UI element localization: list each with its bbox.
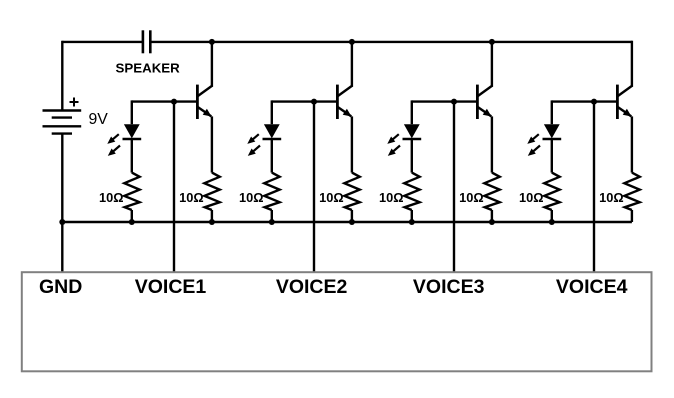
junction R5-ground: [409, 219, 415, 225]
resistor R1 10ohm (LED): [124, 173, 139, 210]
junction R1-ground: [129, 219, 135, 225]
wire resistor R8 to ground: [631, 210, 633, 222]
svg-text:10Ω: 10Ω: [459, 190, 484, 205]
svg-text:10Ω: 10Ω: [239, 190, 264, 205]
wire LED cathode lead voice4: [551, 139, 553, 173]
wire resistor R6 to ground: [491, 210, 493, 222]
LED D2: [263, 124, 282, 139]
wire resistor R5 to ground: [411, 210, 413, 222]
svg-text:GND: GND: [39, 276, 82, 298]
LED D2 emission arrows: [247, 134, 260, 156]
junction R7-ground: [549, 219, 555, 225]
wire VOICE2 tap down to module: [313, 102, 315, 273]
LED D4 emission arrows: [527, 134, 540, 156]
battery B1 9V: [43, 111, 82, 134]
LED D1: [123, 124, 142, 139]
wire LED anode lead voice1: [131, 100, 133, 124]
wire resistor R1 to ground: [131, 210, 133, 222]
resistor R8 10ohm (emitter): [624, 173, 639, 210]
sound module box: [22, 272, 652, 371]
junction collector Q2-top rail: [349, 39, 355, 45]
battery + polarity mark: [70, 98, 79, 107]
wire emitter Q2 to resistor: [351, 116, 353, 172]
wire LED cathode lead voice1: [131, 139, 133, 173]
node VOICE3 tap junction: [451, 99, 457, 105]
junction R6-ground: [489, 219, 495, 225]
wire top supply rail left segment: [62, 41, 143, 43]
svg-text:10Ω: 10Ω: [599, 190, 624, 205]
wire LED anode lead voice3: [411, 100, 413, 124]
transistor Q4: [617, 85, 632, 119]
junction battery-ground: [59, 219, 65, 225]
svg-text:SPEAKER: SPEAKER: [116, 61, 181, 76]
wire LED anode lead voice4: [551, 100, 553, 124]
junction R3-ground: [269, 219, 275, 225]
transistor Q3: [477, 85, 492, 119]
wire collector Q3 to top rail: [491, 41, 493, 87]
node VOICE1 tap junction: [171, 99, 177, 105]
wire battery positive lead: [61, 41, 63, 111]
svg-text:10Ω: 10Ω: [319, 190, 344, 205]
wire VOICE3 tap down to module: [453, 102, 455, 273]
wire LED cathode lead voice2: [271, 139, 273, 173]
LED D3: [403, 124, 422, 139]
wire collector Q2 to top rail: [351, 41, 353, 87]
LED D3 emission arrows: [387, 134, 400, 156]
transistor Q2: [337, 85, 352, 119]
svg-text:10Ω: 10Ω: [99, 190, 124, 205]
wire VOICE1 tap down to module: [173, 102, 175, 273]
transistor Q1: [197, 85, 212, 119]
node VOICE2 tap junction: [311, 99, 317, 105]
LED D4: [543, 124, 562, 139]
wire LED cathode lead voice3: [411, 139, 413, 173]
svg-text:10Ω: 10Ω: [519, 190, 544, 205]
wire battery negative lead down to module: [61, 134, 63, 273]
wire base line voice4: [552, 100, 617, 102]
wire emitter Q3 to resistor: [491, 116, 493, 172]
svg-text:10Ω: 10Ω: [179, 190, 204, 205]
wire collector Q4 to top rail: [631, 41, 633, 87]
resistor R4 10ohm (emitter): [344, 173, 359, 210]
svg-text:VOICE1: VOICE1: [135, 276, 207, 298]
wire base line voice2: [272, 100, 337, 102]
svg-text:9V: 9V: [89, 111, 109, 128]
wire ground rail: [62, 221, 632, 223]
LED D1 emission arrows: [107, 134, 120, 156]
wire resistor R7 to ground: [551, 210, 553, 222]
wire top supply rail right segment: [150, 41, 632, 43]
junction R4-ground: [349, 219, 355, 225]
node VOICE4 tap junction: [591, 99, 597, 105]
wire collector Q1 to top rail: [211, 41, 213, 87]
wire LED anode lead voice2: [271, 100, 273, 124]
svg-text:10Ω: 10Ω: [379, 190, 404, 205]
wire base line voice3: [412, 100, 477, 102]
resistor R3 10ohm (LED): [264, 173, 279, 210]
wire VOICE4 tap down to module: [593, 102, 595, 273]
junction collector Q3-top rail: [489, 39, 495, 45]
junction R2-ground: [209, 219, 215, 225]
wire base line voice1: [132, 100, 197, 102]
resistor R5 10ohm (LED): [404, 173, 419, 210]
resistor R6 10ohm (emitter): [484, 173, 499, 210]
wire resistor R4 to ground: [351, 210, 353, 222]
svg-text:VOICE4: VOICE4: [556, 276, 628, 298]
svg-text:VOICE2: VOICE2: [276, 276, 348, 298]
junction collector Q1-top rail: [209, 39, 215, 45]
resistor R2 10ohm (emitter): [204, 173, 219, 210]
capacitor C1 (speaker coupling): [143, 30, 150, 53]
wire resistor R2 to ground: [211, 210, 213, 222]
wire emitter Q4 to resistor: [631, 116, 633, 172]
svg-text:VOICE3: VOICE3: [413, 276, 485, 298]
resistor R7 10ohm (LED): [544, 173, 559, 210]
wire resistor R3 to ground: [271, 210, 273, 222]
wire emitter Q1 to resistor: [211, 116, 213, 172]
